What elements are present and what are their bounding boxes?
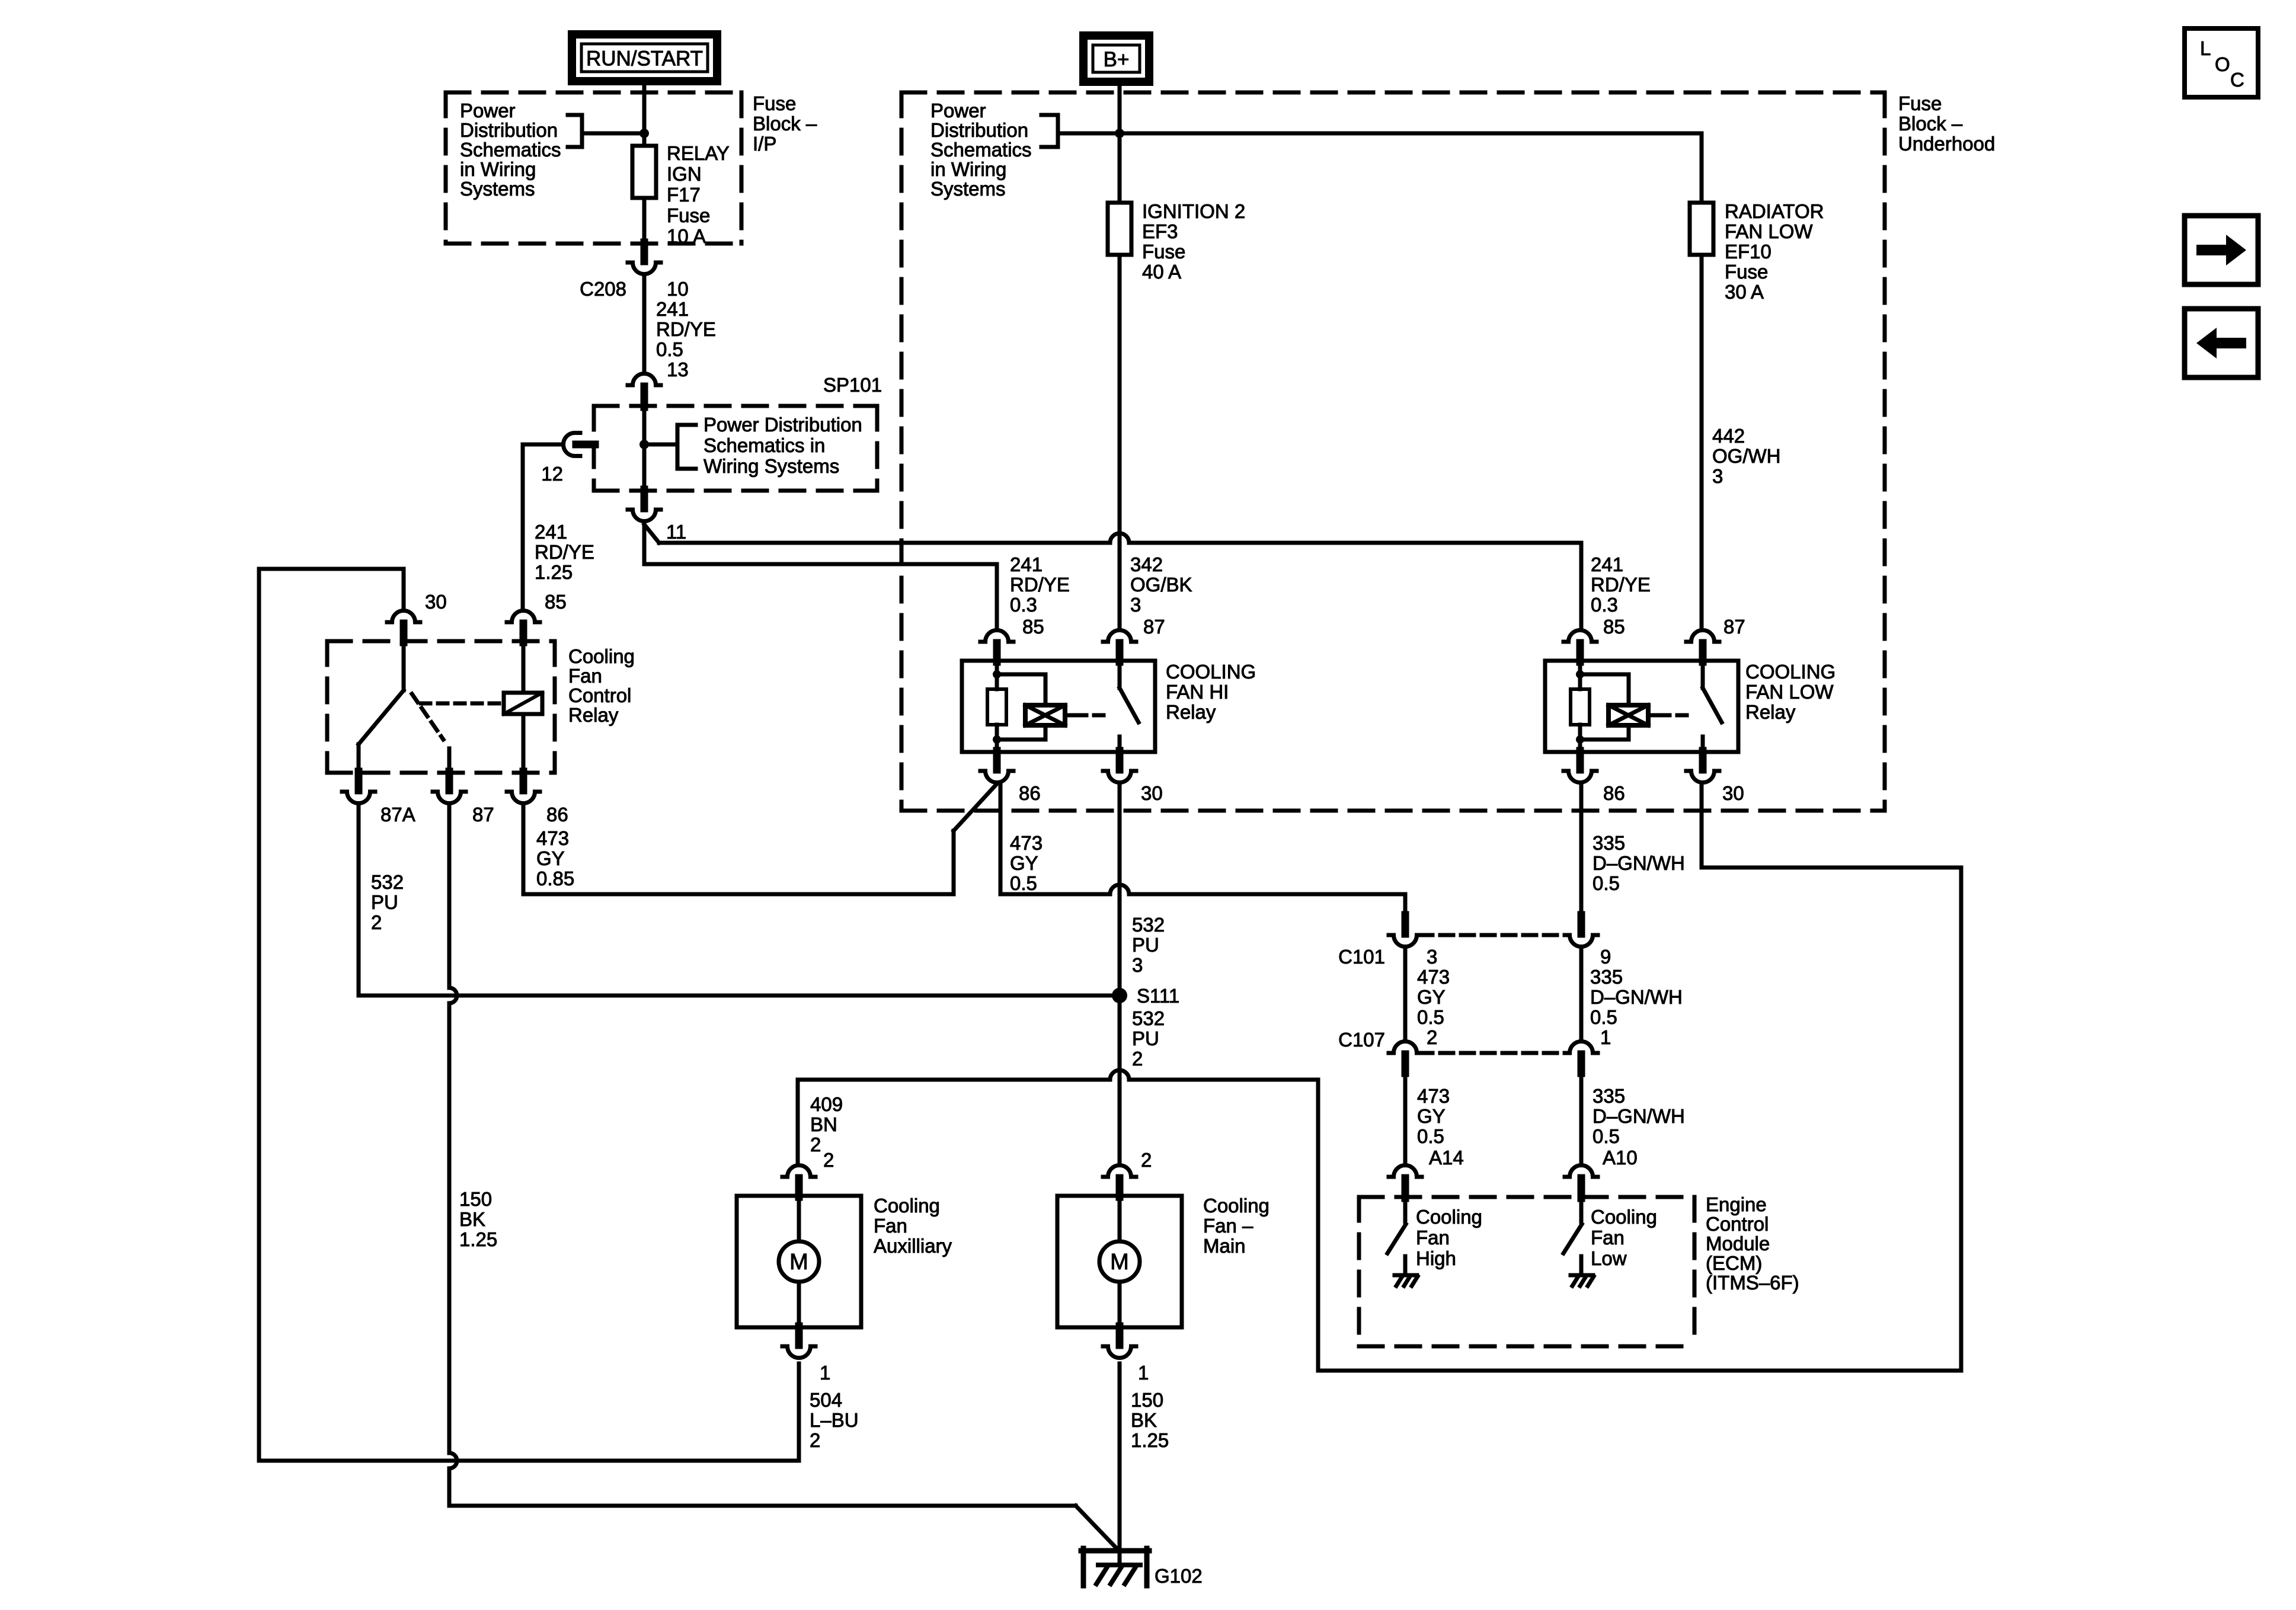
- svg-text:Wiring Systems: Wiring Systems: [703, 455, 839, 477]
- svg-text:Cooling: Cooling: [1203, 1195, 1269, 1217]
- svg-text:OG/WH: OG/WH: [1712, 445, 1780, 467]
- svg-text:85: 85: [545, 591, 567, 613]
- svg-text:D–GN/WH: D–GN/WH: [1593, 1105, 1685, 1127]
- svg-text:87: 87: [472, 804, 494, 825]
- svg-text:13: 13: [667, 359, 689, 380]
- svg-text:RUN/START: RUN/START: [586, 47, 703, 71]
- svg-text:3: 3: [1132, 954, 1143, 976]
- svg-text:A14: A14: [1429, 1147, 1464, 1169]
- svg-text:BN: BN: [810, 1113, 837, 1135]
- svg-text:I/P: I/P: [753, 133, 776, 155]
- svg-text:Fan: Fan: [568, 665, 602, 687]
- svg-text:30: 30: [1722, 782, 1744, 804]
- svg-text:RD/YE: RD/YE: [535, 541, 594, 563]
- svg-text:2: 2: [823, 1149, 834, 1171]
- svg-text:EF10: EF10: [1725, 241, 1771, 263]
- svg-text:GY: GY: [1010, 852, 1038, 874]
- svg-text:in Wiring: in Wiring: [460, 158, 536, 180]
- svg-text:2: 2: [1141, 1149, 1152, 1171]
- svg-text:30: 30: [1141, 782, 1163, 804]
- svg-text:Cooling: Cooling: [568, 645, 635, 667]
- svg-text:PU: PU: [1132, 934, 1159, 956]
- svg-text:10 A: 10 A: [667, 225, 706, 247]
- svg-text:Schematics in: Schematics in: [703, 434, 825, 456]
- svg-text:86: 86: [546, 804, 568, 825]
- svg-text:0.5: 0.5: [1593, 872, 1620, 894]
- svg-text:C107: C107: [1338, 1029, 1385, 1051]
- svg-text:D–GN/WH: D–GN/WH: [1590, 986, 1683, 1008]
- svg-text:0.3: 0.3: [1010, 594, 1037, 616]
- svg-text:532: 532: [1132, 1007, 1165, 1029]
- svg-text:532: 532: [1132, 914, 1165, 936]
- svg-text:473: 473: [1417, 1085, 1450, 1107]
- svg-text:0.5: 0.5: [1590, 1006, 1617, 1028]
- svg-text:Fuse: Fuse: [667, 204, 710, 226]
- svg-text:0.3: 0.3: [1591, 594, 1618, 616]
- svg-text:Main: Main: [1203, 1235, 1246, 1257]
- svg-text:241: 241: [1010, 553, 1043, 575]
- svg-text:A10: A10: [1603, 1147, 1638, 1169]
- svg-text:1.25: 1.25: [1131, 1429, 1169, 1451]
- svg-text:Power: Power: [930, 100, 986, 121]
- svg-text:COOLING: COOLING: [1745, 661, 1835, 683]
- svg-text:9: 9: [1600, 946, 1611, 968]
- svg-text:IGN: IGN: [667, 163, 702, 185]
- svg-text:Fuse: Fuse: [1725, 261, 1768, 283]
- svg-text:30: 30: [425, 591, 447, 613]
- svg-text:Relay: Relay: [568, 704, 619, 726]
- svg-text:241: 241: [1591, 553, 1623, 575]
- svg-text:473: 473: [1417, 966, 1450, 988]
- svg-text:2: 2: [810, 1134, 821, 1156]
- svg-text:40 A: 40 A: [1142, 261, 1181, 283]
- svg-text:86: 86: [1603, 782, 1625, 804]
- svg-text:Relay: Relay: [1745, 701, 1796, 723]
- svg-text:(ECM): (ECM): [1706, 1252, 1762, 1274]
- svg-text:150: 150: [459, 1188, 492, 1210]
- svg-text:3: 3: [1130, 594, 1141, 616]
- svg-text:RD/YE: RD/YE: [1010, 574, 1070, 596]
- svg-text:RD/YE: RD/YE: [656, 318, 716, 340]
- svg-text:2: 2: [1132, 1048, 1143, 1070]
- svg-text:1.25: 1.25: [535, 561, 573, 583]
- svg-text:M: M: [789, 1250, 808, 1275]
- svg-text:EF3: EF3: [1142, 220, 1178, 242]
- svg-text:1: 1: [820, 1362, 830, 1384]
- svg-text:O: O: [2215, 53, 2230, 75]
- svg-text:Power: Power: [460, 100, 516, 121]
- svg-text:Distribution: Distribution: [930, 119, 1028, 141]
- svg-text:IGNITION 2: IGNITION 2: [1142, 200, 1245, 222]
- svg-text:FAN LOW: FAN LOW: [1725, 220, 1813, 242]
- svg-text:GY: GY: [1417, 1105, 1446, 1127]
- svg-text:(ITMS–6F): (ITMS–6F): [1706, 1272, 1799, 1294]
- svg-text:C: C: [2230, 69, 2244, 91]
- svg-text:Fan: Fan: [1591, 1227, 1625, 1249]
- svg-text:442: 442: [1712, 425, 1745, 447]
- svg-text:Fuse: Fuse: [1898, 92, 1942, 114]
- svg-text:2: 2: [810, 1429, 820, 1451]
- svg-text:0.5: 0.5: [1010, 872, 1037, 894]
- svg-text:241: 241: [535, 521, 567, 543]
- svg-text:532: 532: [371, 871, 404, 893]
- svg-text:RD/YE: RD/YE: [1591, 574, 1651, 596]
- svg-text:342: 342: [1130, 553, 1163, 575]
- svg-text:SP101: SP101: [823, 374, 882, 396]
- svg-text:Control: Control: [568, 684, 631, 706]
- svg-text:0.5: 0.5: [1417, 1125, 1444, 1147]
- svg-text:Fuse: Fuse: [1142, 241, 1185, 263]
- svg-text:PU: PU: [1132, 1028, 1159, 1049]
- svg-text:1: 1: [1600, 1026, 1611, 1048]
- svg-text:L: L: [2200, 37, 2211, 59]
- svg-text:Systems: Systems: [460, 178, 535, 200]
- svg-text:1: 1: [1138, 1362, 1149, 1384]
- svg-text:FAN LOW: FAN LOW: [1745, 681, 1834, 703]
- svg-text:0.85: 0.85: [536, 868, 574, 889]
- svg-text:2: 2: [371, 911, 382, 933]
- svg-text:B+: B+: [1104, 48, 1130, 71]
- svg-text:GY: GY: [1417, 986, 1446, 1008]
- svg-text:Relay: Relay: [1166, 701, 1216, 723]
- svg-text:Schematics: Schematics: [460, 139, 561, 161]
- svg-text:150: 150: [1131, 1389, 1163, 1411]
- svg-text:Distribution: Distribution: [460, 119, 558, 141]
- svg-text:12: 12: [541, 463, 563, 485]
- svg-text:M: M: [1110, 1250, 1129, 1275]
- svg-text:2: 2: [1427, 1026, 1437, 1048]
- svg-text:C208: C208: [580, 278, 626, 300]
- svg-text:241: 241: [656, 298, 689, 320]
- svg-text:Auxilliary: Auxilliary: [874, 1235, 952, 1257]
- svg-text:Power Distribution: Power Distribution: [703, 414, 862, 436]
- svg-text:Schematics: Schematics: [930, 139, 1032, 161]
- svg-text:Fan: Fan: [874, 1215, 907, 1237]
- svg-text:S111: S111: [1137, 985, 1179, 1007]
- svg-text:Control: Control: [1706, 1213, 1769, 1235]
- svg-text:0.5: 0.5: [1593, 1125, 1620, 1147]
- svg-text:L–BU: L–BU: [810, 1409, 859, 1431]
- svg-text:87A: 87A: [380, 804, 415, 825]
- svg-text:F17: F17: [667, 184, 701, 206]
- svg-text:FAN HI: FAN HI: [1166, 681, 1229, 703]
- svg-text:85: 85: [1603, 616, 1625, 638]
- svg-text:RADIATOR: RADIATOR: [1725, 200, 1824, 222]
- svg-text:Engine: Engine: [1706, 1193, 1767, 1215]
- svg-text:335: 335: [1593, 1085, 1625, 1107]
- svg-text:0.5: 0.5: [656, 338, 683, 360]
- svg-text:473: 473: [536, 827, 569, 849]
- svg-text:87: 87: [1143, 616, 1165, 638]
- svg-text:C101: C101: [1338, 946, 1385, 968]
- svg-text:0.5: 0.5: [1417, 1006, 1444, 1028]
- svg-text:OG/BK: OG/BK: [1130, 574, 1192, 596]
- svg-text:Fuse: Fuse: [753, 92, 796, 114]
- svg-text:86: 86: [1019, 782, 1041, 804]
- svg-text:Block –: Block –: [1898, 113, 1963, 135]
- svg-text:Underhood: Underhood: [1898, 133, 1995, 155]
- svg-text:PU: PU: [371, 891, 398, 913]
- svg-text:in Wiring: in Wiring: [930, 158, 1006, 180]
- svg-text:Cooling: Cooling: [874, 1195, 940, 1217]
- svg-text:Fan: Fan: [1416, 1227, 1450, 1249]
- svg-text:Block –: Block –: [753, 113, 817, 135]
- svg-text:3: 3: [1427, 946, 1437, 968]
- svg-text:RELAY: RELAY: [667, 142, 730, 164]
- svg-text:85: 85: [1022, 616, 1044, 638]
- svg-text:335: 335: [1590, 966, 1623, 988]
- svg-text:11: 11: [666, 521, 686, 543]
- svg-text:Module: Module: [1706, 1233, 1770, 1254]
- svg-text:504: 504: [810, 1389, 842, 1411]
- svg-text:Systems: Systems: [930, 178, 1006, 200]
- svg-text:10: 10: [667, 278, 689, 300]
- svg-text:30 A: 30 A: [1725, 281, 1764, 303]
- svg-text:Fan –: Fan –: [1203, 1215, 1253, 1237]
- svg-text:BK: BK: [459, 1208, 485, 1230]
- svg-text:335: 335: [1593, 832, 1625, 854]
- svg-text:409: 409: [810, 1093, 843, 1115]
- svg-text:Cooling: Cooling: [1591, 1206, 1657, 1228]
- svg-text:473: 473: [1010, 832, 1043, 854]
- svg-text:1.25: 1.25: [459, 1228, 497, 1250]
- svg-text:COOLING: COOLING: [1166, 661, 1256, 683]
- svg-text:87: 87: [1723, 616, 1745, 638]
- svg-text:Low: Low: [1591, 1247, 1627, 1269]
- svg-text:High: High: [1416, 1247, 1456, 1269]
- svg-text:G102: G102: [1155, 1565, 1203, 1587]
- svg-text:Cooling: Cooling: [1416, 1206, 1482, 1228]
- svg-text:BK: BK: [1131, 1409, 1157, 1431]
- svg-text:GY: GY: [536, 847, 565, 869]
- svg-text:3: 3: [1712, 465, 1723, 487]
- svg-text:D–GN/WH: D–GN/WH: [1593, 852, 1685, 874]
